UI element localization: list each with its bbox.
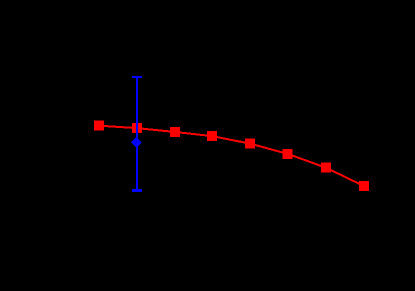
red square marker point 3 xyxy=(170,127,180,137)
red square marker point 4 xyxy=(207,131,217,141)
red square marker point 6 xyxy=(283,149,293,159)
red square marker point 1 xyxy=(94,121,104,131)
red square marker point 8 xyxy=(359,181,369,191)
red data series line xyxy=(99,126,364,186)
blue error bar bottom cap xyxy=(132,189,142,192)
red square marker point 2 xyxy=(132,123,142,133)
red square marker point 7 xyxy=(321,163,331,173)
red square marker point 5 xyxy=(245,139,255,149)
blue diamond marker xyxy=(131,137,142,148)
blue error bar top cap xyxy=(132,76,142,78)
blue error bar vertical line xyxy=(136,77,138,191)
